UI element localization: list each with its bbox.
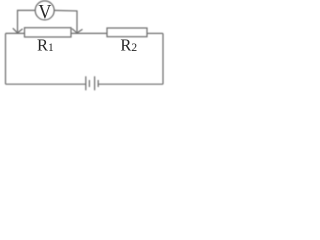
battery cell plate short 1 <box>88 80 90 87</box>
svg-text:R2: R2 <box>120 36 137 55</box>
battery cell plate short 2 <box>97 80 99 87</box>
wire top right segment <box>147 32 163 34</box>
wire between R1 and R2 <box>71 32 107 34</box>
battery cell plate long 2 <box>94 76 96 90</box>
resistor R1 body <box>25 28 72 37</box>
wire top left segment <box>6 32 25 34</box>
svg-text:V: V <box>38 1 51 23</box>
battery cell plate long 1 <box>85 76 87 90</box>
wire voltmeter left lead <box>18 10 36 31</box>
resistor R2 body <box>107 28 147 37</box>
arrowhead right (to node B) <box>72 29 83 33</box>
wire left side <box>5 33 7 84</box>
voltmeter V circle <box>35 1 54 20</box>
wire bottom right segment <box>98 83 163 85</box>
wire right side <box>162 33 164 84</box>
wire voltmeter right lead <box>54 10 77 31</box>
svg-text:R1: R1 <box>37 36 54 55</box>
arrowhead left (to node A) <box>13 28 23 33</box>
wire bottom left segment <box>6 83 86 85</box>
